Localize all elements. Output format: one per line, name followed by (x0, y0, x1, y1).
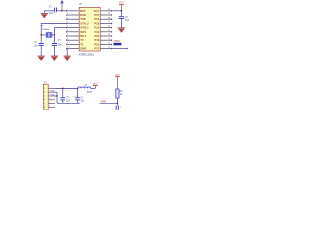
wire right crystal vertical (53, 28, 55, 44)
svg-text:INT1: INT1 (80, 34, 86, 38)
power port VCC arrow (blue) top-left (61, 1, 64, 5)
wire pin20 to VCC node (112, 10, 121, 12)
svg-text:GND: GND (51, 94, 56, 96)
U1 right pin numbers 20-11 (108, 9, 111, 49)
svg-text:T1: T1 (80, 42, 84, 46)
resistor R1 (116, 89, 119, 98)
wire crystal horizontal (41, 34, 46, 36)
capacitor C6 plates (polarized) (75, 98, 80, 100)
svg-text:P16: P16 (94, 17, 99, 21)
svg-text:TXD: TXD (80, 17, 85, 21)
wire VCC to R1 top (116, 77, 118, 89)
wire VCC arrow stem to RST wire (61, 5, 63, 11)
ground (IC GND pin) (64, 56, 71, 61)
node junction rail capB (77, 88, 79, 90)
wire VCC port stem (120, 5, 122, 11)
wire RST right segment (57, 10, 66, 12)
node junction crystal left (40, 34, 42, 36)
svg-text:VCC: VCC (119, 2, 124, 5)
P1 pin numbers above stubs (49, 87, 50, 108)
wire bottom ground rail (57, 102, 80, 104)
svg-text:INT0: INT0 (80, 30, 86, 34)
wire C2 to ground (120, 19, 122, 28)
svg-text:RST: RST (80, 9, 86, 13)
svg-text:5: 5 (49, 102, 50, 104)
wire pin2 GND (55, 91, 57, 93)
ground (top-right) (118, 27, 125, 32)
capacitor C3 (left 22p) (39, 44, 44, 46)
svg-text:1: 1 (49, 87, 50, 89)
svg-text:XTAL1: XTAL1 (80, 26, 89, 30)
wire ground stem top-left (43, 11, 45, 14)
net label solid navy block under PWM (114, 43, 122, 46)
ground (top-left) (41, 13, 48, 18)
wire XTAL1 horizontal (54, 27, 66, 29)
svg-text:GND: GND (51, 91, 56, 93)
wire capA top stem (62, 88, 64, 97)
wire L1 to VCC corner (91, 87, 96, 89)
wire +V rail from P1 pin1 (55, 87, 78, 89)
wire XTAL2 horizontal (41, 22, 66, 24)
wire R1 bottom to junction (116, 98, 118, 103)
U1 right pin stubs pins 20-11 (100, 10, 112, 49)
capacitor C2 (decoupling) (119, 17, 125, 19)
wire junction to Q1 (116, 103, 118, 105)
svg-text:P11: P11 (95, 38, 100, 42)
crystal Y1 (46, 32, 51, 38)
node junction on RST wire (61, 10, 63, 12)
svg-text:6: 6 (49, 106, 50, 108)
svg-text:P17: P17 (94, 13, 99, 17)
svg-text:P10: P10 (94, 42, 99, 46)
wire PWM net to R1 (100, 102, 118, 104)
svg-text:GND: GND (80, 47, 86, 51)
P1 pin name digits inside (44, 87, 46, 109)
wire VCC node down to C2 (120, 11, 122, 16)
wire left crystal vertical (40, 23, 42, 43)
svg-text:PWM: PWM (114, 40, 120, 43)
wire capA bottom stem (62, 100, 64, 103)
capacitor C4 (right 22p) (52, 44, 57, 46)
IC U1 AT89C2051 body (79, 7, 100, 51)
svg-text:P15: P15 (94, 21, 99, 25)
ground (crystal left) (38, 56, 45, 61)
svg-text:1K: 1K (120, 94, 123, 96)
wire RST left segment to ground (44, 10, 54, 12)
svg-text:P13: P13 (94, 30, 99, 34)
power port VCC (red, after inductor) (93, 84, 98, 86)
wire VCC stem bottom-mid (94, 86, 96, 89)
svg-text:PWM: PWM (101, 102, 107, 104)
node junction crystal right (54, 34, 56, 36)
svg-text:VCC: VCC (94, 9, 100, 13)
U1 right pin names (94, 9, 100, 51)
svg-text:47uH: 47uH (87, 92, 93, 94)
node junction pin3/vertical (56, 95, 58, 97)
svg-text:XTAL2: XTAL2 (80, 21, 89, 25)
connector P1 body (43, 84, 48, 110)
svg-text:RXD: RXD (80, 13, 86, 17)
capacitor C1 (reset cap, horizontal) (55, 8, 57, 13)
transistor Q1 (cut off at bottom edge) (116, 106, 118, 110)
wire GND pin to ground (66, 49, 68, 56)
node junction rail capA (62, 88, 64, 90)
node junction VCC (121, 10, 123, 12)
svg-text:4.0MHz: 4.0MHz (42, 29, 50, 31)
wire pin3 GND (55, 95, 57, 97)
U1 left pin numbers 1-10 (67, 9, 70, 49)
wire GND vertical x57 (56, 92, 58, 103)
U1 left pin stubs pins 1-10 (66, 10, 79, 49)
wire C4 to ground (53, 46, 55, 56)
svg-text:104: 104 (125, 19, 130, 22)
wire capB top stem (77, 88, 79, 97)
svg-text:4: 4 (49, 98, 50, 100)
wire pin 11 long stub (112, 48, 127, 50)
svg-text:P14: P14 (94, 26, 99, 30)
svg-text:AT89C2051: AT89C2051 (79, 52, 95, 56)
P1 pin stubs (48, 88, 55, 107)
inductor L1 (78, 87, 90, 89)
ground (crystal right) (51, 56, 58, 61)
svg-text:T0: T0 (80, 38, 84, 42)
wire C3 to ground (40, 46, 42, 56)
svg-text:P12: P12 (94, 34, 99, 38)
capacitor C5 plates (61, 98, 66, 100)
power port VCC (red, top-right) (119, 2, 124, 6)
svg-text:P37: P37 (94, 47, 99, 51)
power port VCC (red, above R1) (115, 75, 120, 77)
U1 left pin names (80, 9, 89, 51)
wire capB bottom stem (77, 100, 79, 103)
node junction R1 bottom (117, 102, 119, 104)
